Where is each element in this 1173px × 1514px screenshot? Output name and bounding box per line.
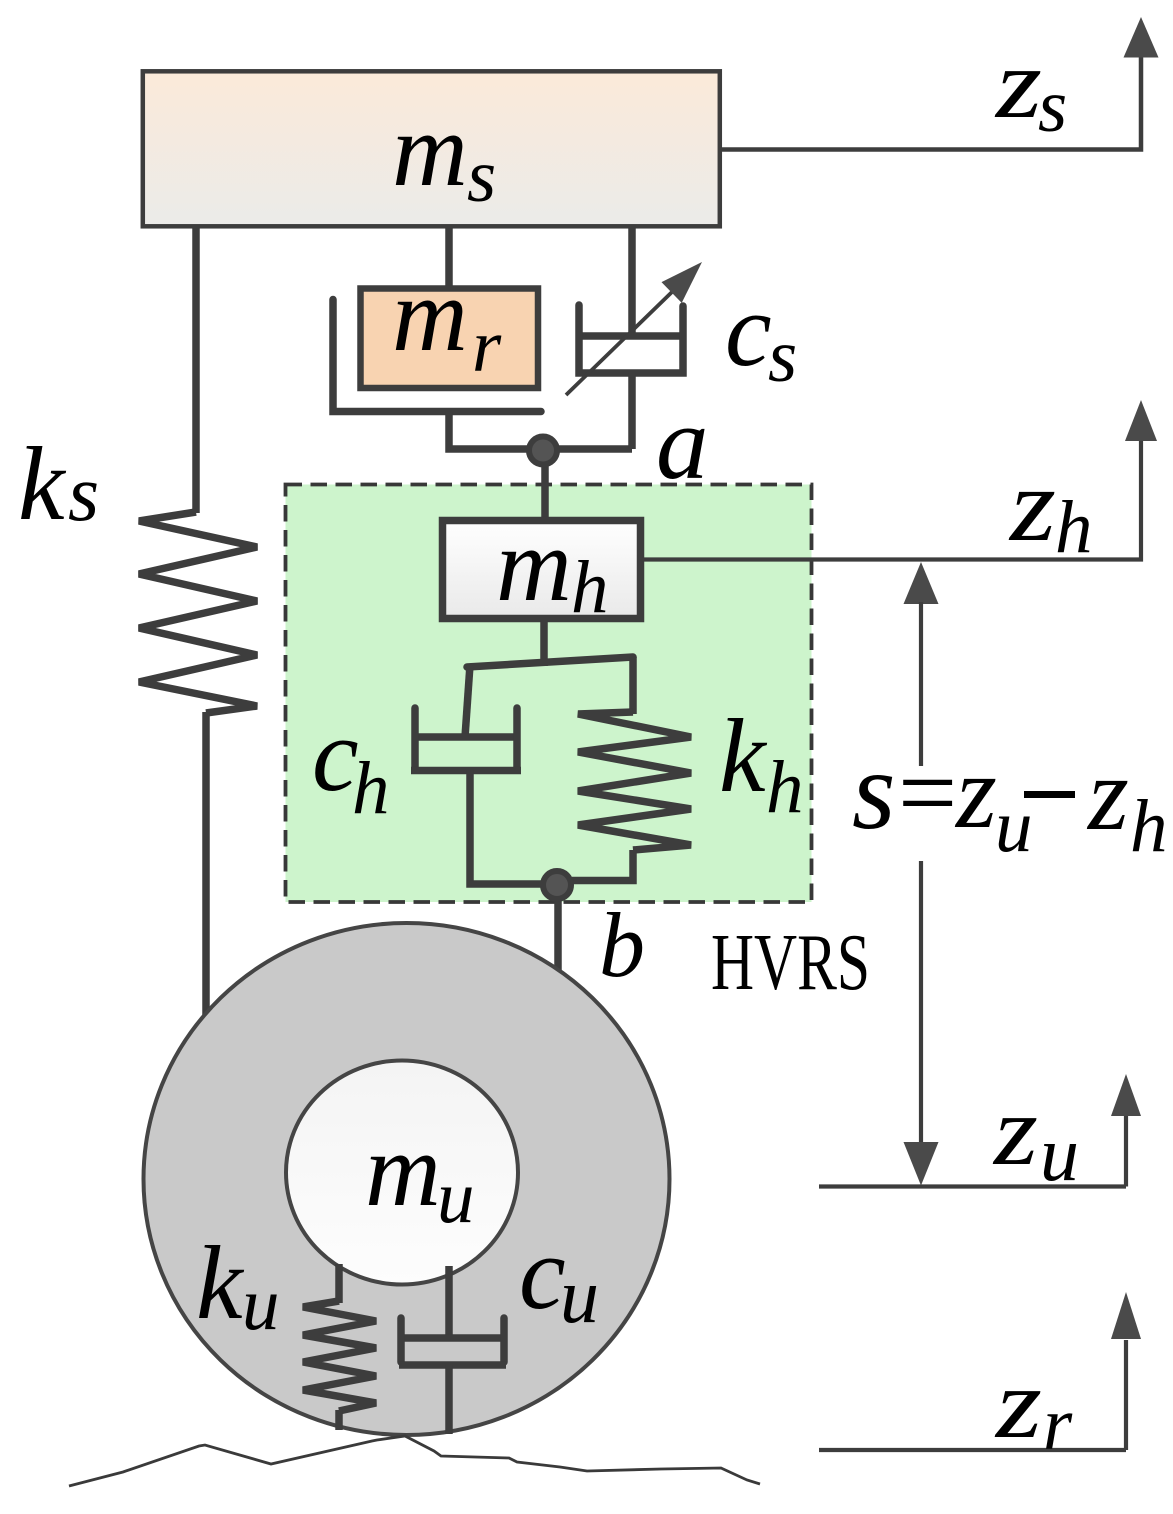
- svg-text:k: k: [196, 1224, 245, 1341]
- baseline z_r: [819, 1448, 1126, 1452]
- spring k_s: [139, 512, 257, 713]
- wire node b to wheel: [554, 885, 562, 978]
- mass m_h box: [443, 521, 641, 619]
- svg-text:h: h: [352, 747, 390, 830]
- svg-text:m: m: [365, 1111, 441, 1228]
- mass m_s box: [143, 71, 720, 226]
- svg-text:r: r: [472, 305, 502, 388]
- svg-text:u: u: [437, 1156, 475, 1239]
- displacement arrow s = z_u - z_h: [904, 562, 939, 604]
- piston rod c_h (tilted): [465, 665, 470, 737]
- svg-text:h: h: [571, 546, 609, 629]
- damper c_s piston plate: [576, 332, 686, 340]
- spring k_h top wire: [629, 657, 637, 714]
- damper c_u rod bottom: [445, 1365, 453, 1434]
- bracket around m_r: [333, 300, 541, 412]
- adjustable arrow through c_s: [566, 291, 673, 395]
- HVRS dashed green box: [286, 485, 812, 903]
- spring k_u rod: [335, 1264, 343, 1303]
- damper c_h cup: [411, 708, 419, 767]
- svg-text:s: s: [768, 315, 797, 398]
- svg-text:s: s: [68, 450, 99, 538]
- ground terrain: [69, 1436, 760, 1486]
- svg-text:=: =: [898, 734, 957, 851]
- svg-text:r: r: [1043, 1383, 1073, 1466]
- svg-text:z: z: [954, 733, 997, 850]
- svg-text:b: b: [599, 894, 645, 996]
- damper c_s cup: [579, 305, 683, 373]
- wire spring k_s to wheel: [202, 712, 210, 1024]
- wire z_s tap: [722, 57, 1141, 150]
- svg-text:h: h: [1130, 785, 1168, 868]
- svg-text:c: c: [725, 271, 772, 388]
- svg-text:z: z: [994, 1348, 1042, 1459]
- spring k_h bottom wire: [572, 850, 633, 881]
- spring k_u bottom rod: [335, 1410, 343, 1430]
- svg-text:k: k: [719, 697, 768, 814]
- svg-text:h: h: [1055, 486, 1093, 569]
- svg-text:s: s: [852, 729, 896, 853]
- wheel hub m_u: [286, 1061, 518, 1285]
- svg-text:z: z: [994, 28, 1042, 139]
- damper c_u cup: [397, 1318, 405, 1362]
- svg-text:z: z: [1008, 446, 1056, 563]
- svg-text:h: h: [766, 746, 804, 829]
- svg-text:c: c: [519, 1214, 566, 1331]
- spring k_u: [303, 1301, 376, 1411]
- wire c_h to node b: [470, 770, 556, 884]
- svg-text:m: m: [392, 256, 468, 373]
- baseline z_u: [819, 1184, 1126, 1188]
- wire m_h down: [540, 620, 548, 666]
- svg-text:z: z: [1086, 735, 1129, 852]
- svg-text:m: m: [496, 506, 572, 623]
- svg-text:HVRS: HVRS: [711, 919, 870, 1007]
- node a: [529, 437, 557, 465]
- wire node a to m_h: [541, 451, 549, 521]
- node b: [543, 871, 571, 899]
- damper c_s rod bottom: [628, 373, 636, 449]
- wire z_h tap: [642, 441, 1141, 560]
- wheel tyre: [144, 923, 670, 1435]
- svg-text:s: s: [467, 135, 496, 218]
- svg-text:u: u: [1040, 1110, 1079, 1197]
- arrowhead z_s: [1124, 17, 1159, 58]
- damper c_s rod top: [628, 228, 636, 336]
- svg-text:z: z: [992, 1075, 1038, 1186]
- svg-text:u: u: [560, 1252, 599, 1339]
- svg-text:k: k: [18, 425, 67, 542]
- tilted bar: [467, 657, 633, 667]
- damper c_u piston plate: [403, 1334, 502, 1342]
- damper c_h piston plate: [415, 733, 517, 741]
- wire bracket to node a: [449, 412, 632, 450]
- svg-text:s: s: [1038, 65, 1067, 148]
- damper c_u rod: [445, 1266, 453, 1338]
- mass m_r box: [361, 289, 539, 389]
- spring k_h: [578, 712, 691, 850]
- wire m_s to m_r: [445, 228, 453, 290]
- wire m_s to spring k_s: [192, 228, 200, 513]
- arrowhead z_h: [1125, 400, 1157, 441]
- svg-text:m: m: [392, 91, 468, 208]
- svg-text:u: u: [242, 1263, 280, 1346]
